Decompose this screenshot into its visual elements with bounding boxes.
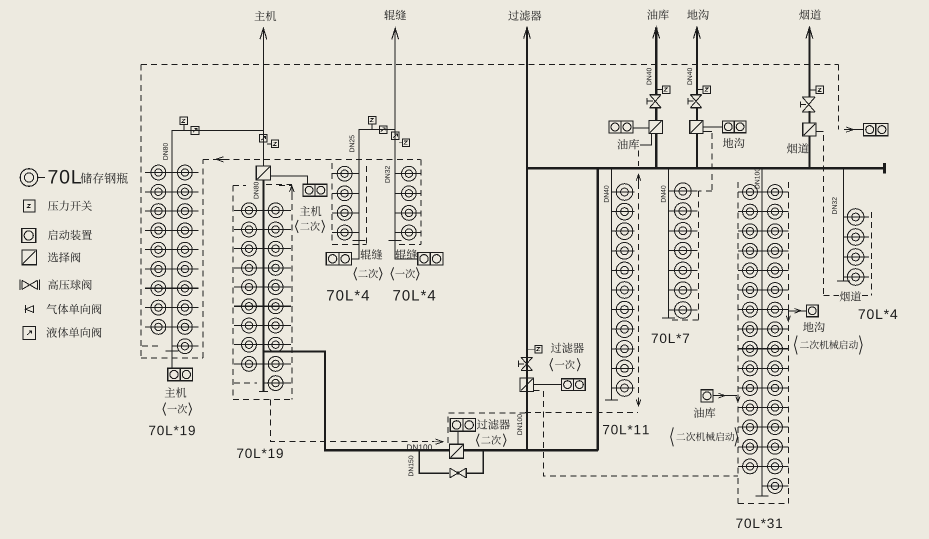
ball valve flue [802, 96, 815, 98]
label DN100 filter line [517, 414, 522, 434]
wire bankA manifold to starting devices [352, 241, 360, 259]
legend label 70L storage cylinder [48, 170, 80, 184]
pressure switch P1 on bank1 feed [180, 117, 188, 125]
label bankB 70L*4 [393, 290, 435, 301]
wire starting device from bank31 with arrow [788, 311, 806, 316]
control dashed filter line to bank 70L*11 enclosure [525, 411, 638, 413]
label oil-depot at selector [617, 139, 639, 149]
label DN100 bank31 [755, 168, 760, 188]
wire selector to starting devices filter primary [534, 383, 562, 385]
ball valve trench [690, 94, 701, 96]
wire main-engine riser [262, 28, 264, 166]
label bank1 main-engine [165, 387, 187, 397]
label bank2 main-engine secondary [300, 206, 322, 216]
pipe arrow filter [524, 28, 531, 39]
pipe distribution manifold [527, 167, 885, 169]
selector valve filter primary [520, 378, 534, 392]
label trench secondary mechanical start [803, 322, 825, 332]
cylinder bank flue 4x70L [844, 216, 869, 218]
pipe bankB primary manifold [394, 136, 396, 241]
pipe bankA secondary manifold with elbow to roll-gap riser [359, 130, 395, 241]
outlet label ZHUJI main-engine [255, 11, 277, 21]
control dashed from selector down bank2 enclosure right [266, 183, 292, 185]
outlet label GUNFENG roll-gap [384, 10, 406, 20]
pipe bank11 manifold [611, 168, 613, 400]
starting device oil-depot secondary single [701, 390, 713, 402]
cylinder bank7 7x70L [669, 190, 698, 192]
label bankA 70L*4 [327, 290, 369, 301]
pipe trench riser upper [696, 27, 698, 94]
bank flue manifold cap [837, 280, 850, 282]
outlet label YANDAO flue [799, 9, 821, 19]
manifold end cap [883, 163, 886, 173]
dashed enclosure bank2 [232, 185, 234, 399]
legend pressure switch symbol [23, 200, 35, 212]
bank7 manifold cap [662, 317, 675, 319]
legend label liquid check valve [47, 327, 102, 337]
pressure switch oil-depot [662, 86, 669, 93]
selector valve trench [690, 120, 703, 133]
pipe bank2 manifold [262, 180, 264, 392]
label bank1 70L*19 [149, 426, 195, 436]
bank2 manifold bottom cap [259, 391, 268, 393]
bypass pipe with ball valve [419, 450, 483, 473]
pipe arrow flue [806, 27, 813, 38]
legend label high-pressure ball valve [48, 279, 92, 289]
legend high-pressure ball valve symbol [20, 280, 40, 291]
starting devices flue pair [864, 124, 876, 136]
cylinder bank2 19x70L cylinders [234, 209, 263, 211]
starting devices bankA pair [326, 253, 339, 266]
label DN150 [409, 456, 414, 476]
pipe valve to selector oil-depot [655, 108, 657, 121]
pressure switch flue [816, 86, 824, 94]
label bank11 70L*11 [603, 425, 649, 435]
control dashed oil-depot to bank 70L*11 [638, 151, 640, 166]
control line boundary left edge [140, 65, 142, 358]
pipe flue riser upper [808, 27, 810, 97]
pipe arrow roll-gap [392, 28, 399, 39]
label filter primary [551, 343, 584, 353]
pipe oil-depot riser upper [655, 27, 657, 94]
selector valve filter secondary [450, 444, 464, 458]
cylinder bankB 4x70L [395, 173, 421, 175]
label DN25 [350, 135, 355, 152]
control line boundary right drop to flue starting device [837, 65, 839, 130]
label DN32 roll-gap [385, 166, 390, 182]
legend label pressure switch [48, 201, 92, 211]
legend 70L storage cylinder symbol [20, 169, 45, 187]
pipe bank2 branch to bottom transfer [263, 352, 449, 451]
control dashed trench selector to bank 70L*7 [703, 130, 712, 132]
label bank1 primary [163, 403, 166, 416]
label flue at selector [787, 143, 809, 153]
control dashed enclosure bank11 with arrows [636, 174, 641, 183]
legend liquid check valve symbol [23, 327, 36, 340]
pipe arrow oil-depot [653, 27, 660, 38]
control dashed flue selector to bank 70L*4 [816, 130, 823, 132]
liquid check valve on main-engine riser [260, 135, 268, 143]
label DN32 bank flue [832, 197, 837, 213]
dashed enclosure bank1 [141, 357, 203, 359]
label bank31 70L*31 [736, 519, 782, 529]
label DN40 trench [687, 68, 692, 85]
control line top boundary dashed [141, 64, 838, 66]
label bank flue 70L*4 [859, 309, 898, 319]
cylinder bank1 19x70L cylinders [145, 172, 172, 174]
gas check valve on roll-gap connector [379, 126, 386, 133]
bank11 manifold cap [605, 399, 618, 401]
cylinder bank31 31x70L [738, 191, 762, 193]
pressure switch filter primary [535, 346, 542, 353]
bank31 manifold cap [756, 495, 769, 497]
pressure switch on roll-gap connector [368, 116, 375, 123]
label DN100 bottom pipe [407, 444, 432, 450]
ball valve filter primary [521, 356, 532, 358]
dashed enclosure bankB [420, 159, 422, 244]
starting device trench secondary single [806, 305, 818, 317]
outlet label GUOLVQI filter [508, 10, 541, 20]
dashed enclosure bank31 [737, 182, 739, 503]
starting devices filter primary pair [562, 379, 574, 391]
legend label starting device [48, 230, 92, 240]
wire roll-gap riser [394, 28, 396, 135]
control arrow into flue starting devices [844, 127, 854, 132]
pressure switch trench [703, 86, 710, 93]
label filter secondary [477, 419, 510, 429]
ball valve oil-depot [650, 94, 661, 96]
legend selector valve symbol [22, 250, 37, 265]
control dashed bank2 to secondary filter selector [271, 399, 434, 441]
legend starting device symbol [22, 229, 36, 243]
pressure switch on roll-gap riser [402, 139, 409, 146]
ball valve bypass [449, 468, 451, 478]
pipe selector to manifold trench [696, 134, 698, 169]
liquid check valve on bank1 feed [191, 127, 199, 135]
dashed stub at bank2 extra row [234, 382, 257, 384]
pipe selector to manifold oil-depot [655, 134, 657, 169]
label DN40 bank11 [604, 186, 609, 203]
starting devices main-engine secondary pair [303, 184, 315, 196]
pipe valve to selector flue [808, 111, 810, 123]
label bankA roll-gap [361, 249, 383, 259]
label bankB roll-gap [396, 249, 418, 259]
dashed stub at bank1 extra row [142, 345, 158, 347]
wire starting devices to selector filter secondary [457, 431, 459, 444]
pipe bank flue manifold [843, 168, 845, 281]
label DN80 bank2 [254, 182, 259, 199]
label DN40 bank7 [661, 186, 666, 203]
control line dashed to bank1 with arrow [203, 158, 421, 160]
label oil-depot secondary mechanical start [694, 408, 716, 418]
starting devices filter secondary pair [450, 419, 463, 432]
starting devices trench pair [722, 121, 734, 133]
selector valve oil-depot [649, 120, 662, 133]
outlet label YOUKU oil-depot [647, 9, 669, 19]
label bank2 70L*19 [237, 449, 283, 459]
wire starting devices to selector oil-depot [633, 127, 649, 129]
bankA manifold cap [353, 240, 366, 242]
wire selector to starting devices bank2 [271, 176, 308, 184]
starting devices oil-depot pair [609, 121, 621, 133]
dashed enclosure filter secondary [448, 413, 527, 443]
pipe arrow main-engine [260, 28, 267, 39]
dashed enclosure bank flue [870, 212, 872, 296]
label trench at selector [723, 138, 745, 148]
wire starting device to bank31 with arrow [713, 395, 737, 397]
legend gas check valve symbol [26, 305, 34, 313]
wire selector to starting devices trench [703, 126, 723, 128]
pressure switch on main-engine riser [272, 140, 279, 147]
label DN80 bank1 [163, 143, 168, 160]
node bank1 manifold elbow [172, 131, 264, 352]
pipe bank7 manifold [668, 168, 670, 318]
pipe selector to manifold flue [808, 136, 810, 168]
starting devices bankB pair [418, 253, 431, 266]
pipe valve to selector trench [696, 108, 698, 121]
bankB manifold cap [389, 240, 402, 242]
cylinder bank11 11x70L [612, 191, 635, 193]
legend label gas check valve [47, 304, 102, 314]
wire selector leader oil-depot [640, 134, 652, 145]
legend label selector valve [48, 252, 81, 262]
selector valve main-engine [256, 166, 270, 180]
pipe selector to riser [464, 449, 598, 451]
liquid check valve on roll-gap riser [392, 132, 399, 139]
bank1 manifold bottom cap [165, 350, 178, 352]
dashed enclosure bankA [331, 163, 333, 245]
label flue in enclosure [840, 291, 861, 301]
label bank7 70L*7 [652, 334, 689, 344]
pipe arrow trench [694, 27, 701, 38]
pipe bank31 manifold [761, 168, 763, 496]
cylinder bankA 4x70L [332, 173, 359, 175]
outlet label DIGOU trench [687, 9, 709, 19]
pipe riser from bottom transfer to manifold [597, 168, 599, 450]
selector valve flue [803, 123, 816, 136]
starting devices bank1 pair [168, 368, 180, 380]
control dashed filter-primary selector to bank 70L*31 [534, 391, 738, 477]
label DN40 oil-depot [647, 68, 652, 85]
pipe filter main line [526, 28, 528, 451]
wire bankB manifold to starting devices [395, 241, 418, 259]
